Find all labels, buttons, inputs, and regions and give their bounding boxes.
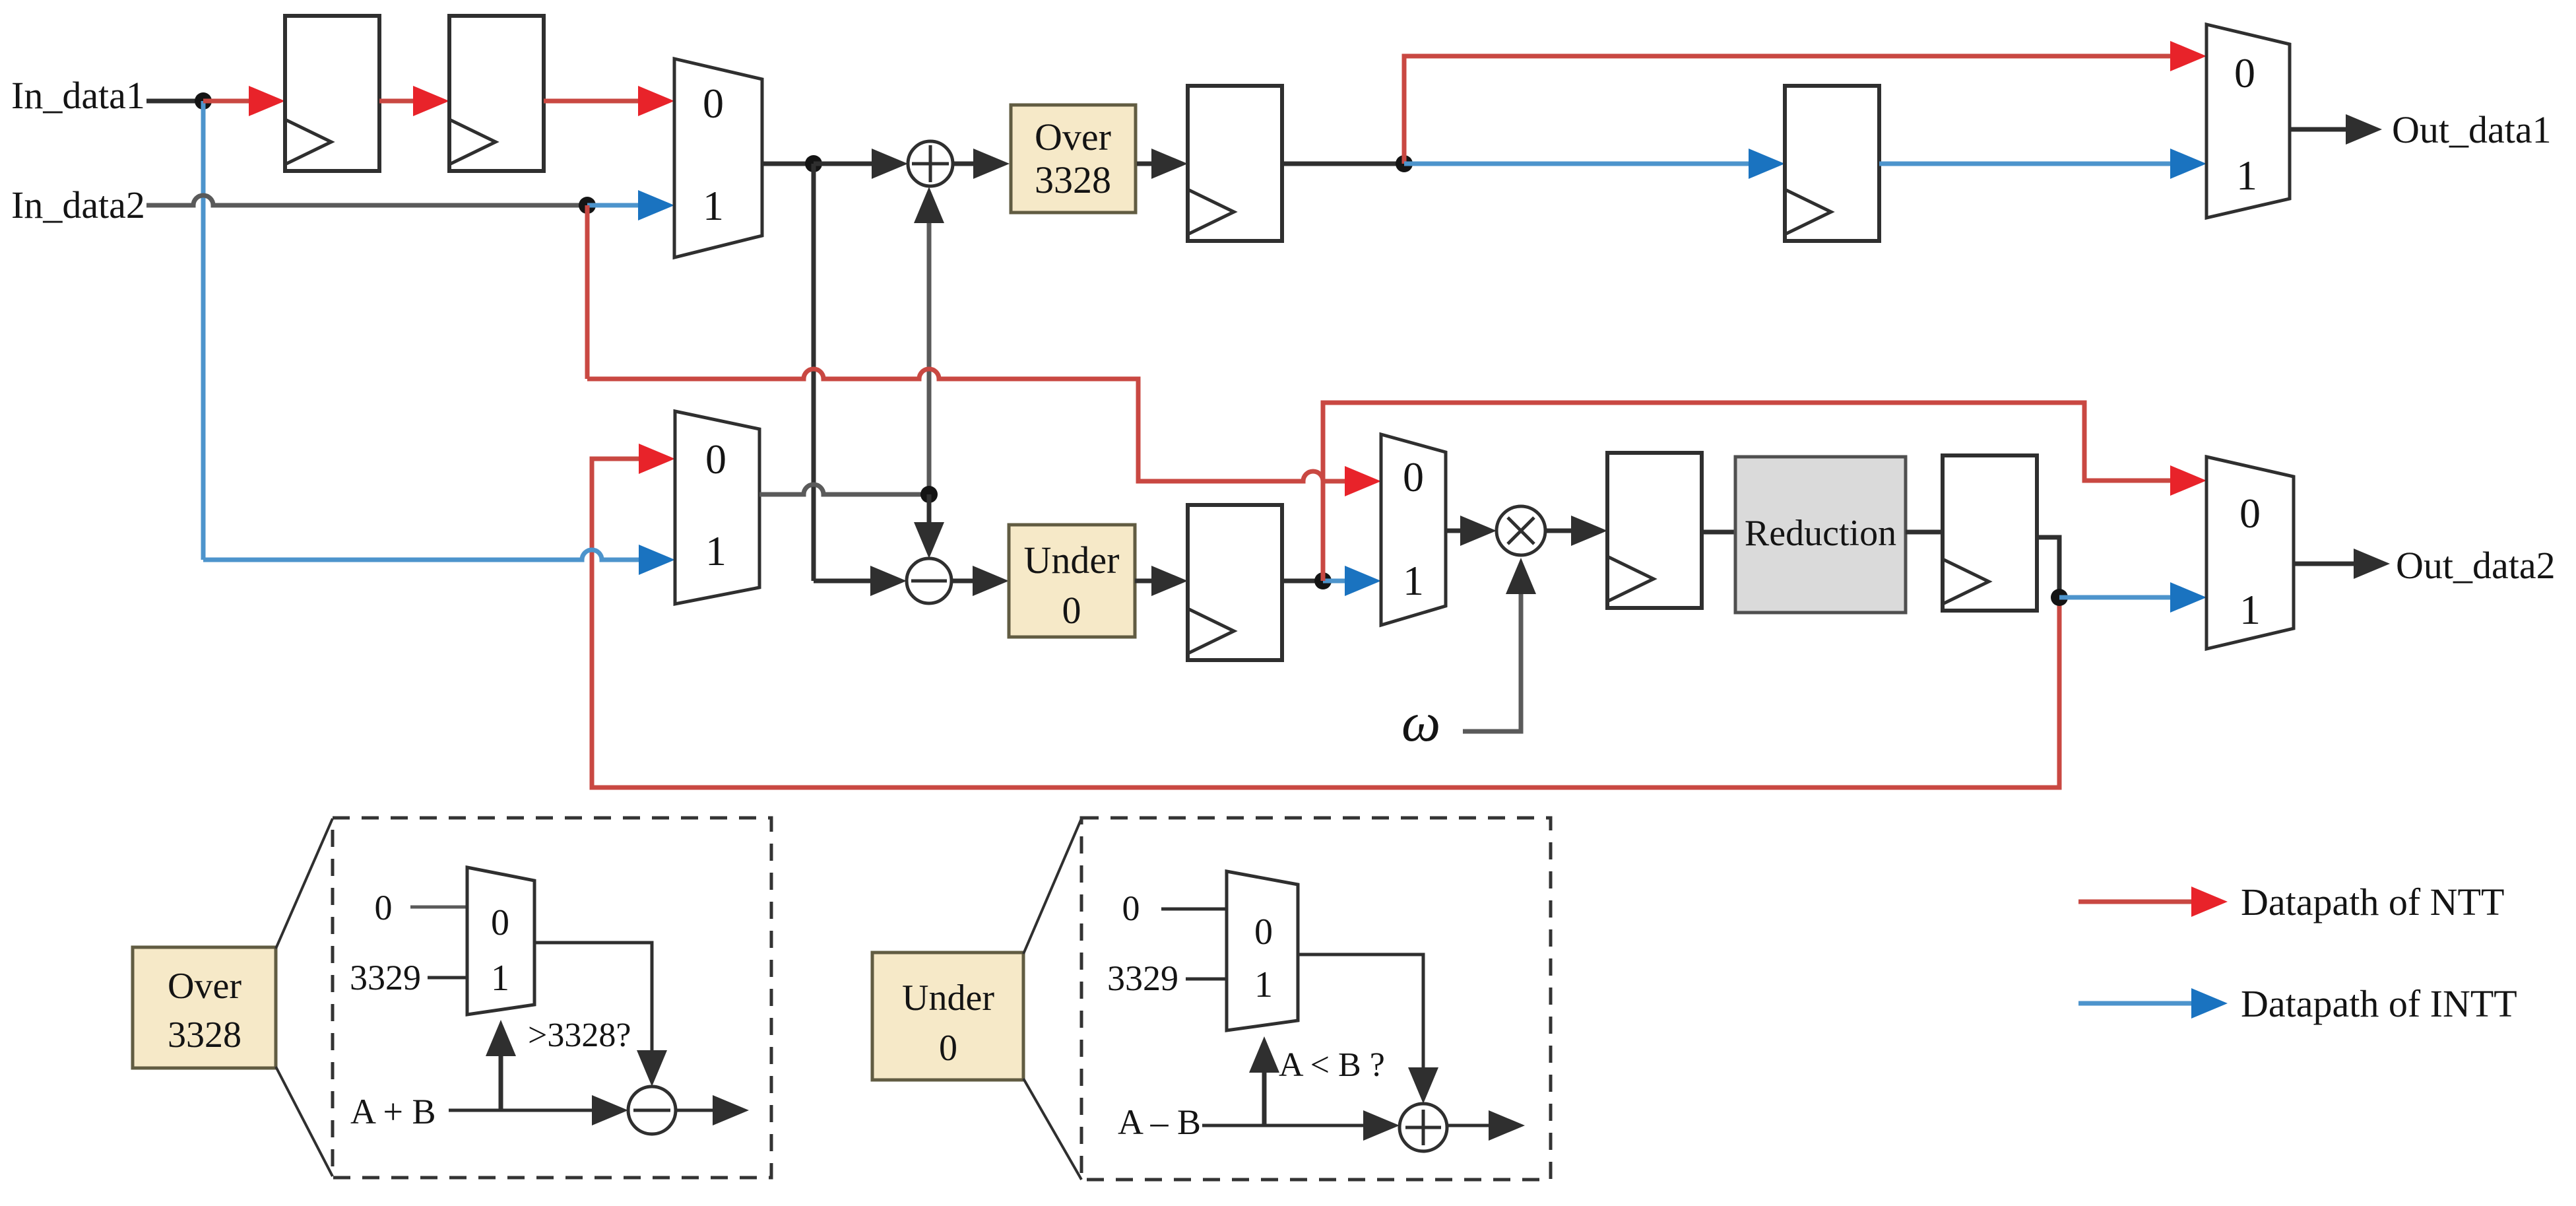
wire adder bottom input (from J5) xyxy=(927,221,932,494)
subtractor SUB2 xyxy=(628,1087,676,1134)
wire callout funnel bottom (Under) xyxy=(1023,1079,1081,1180)
svg-text:A < B ?: A < B ? xyxy=(1279,1046,1385,1084)
adder ADD2 xyxy=(1400,1104,1447,1151)
svg-text:0: 0 xyxy=(939,1028,957,1069)
wire J3 vertical down to subtractor xyxy=(812,164,816,581)
wire select A+B up into M6 (>3328?) xyxy=(499,1055,503,1110)
wire blue INTT to mux M2 input 1 with hop xyxy=(203,550,639,560)
wire adder to Over 3328 xyxy=(953,162,979,166)
wire 3329 to mux M6 xyxy=(428,976,467,980)
wire SUB1 to Under 0 xyxy=(951,579,978,584)
svg-text:Under: Under xyxy=(902,978,994,1019)
mux M7 xyxy=(1227,871,1298,1030)
wire blue R4 to mux M4 input 1 xyxy=(1879,162,2175,166)
svg-text:0: 0 xyxy=(1254,912,1273,953)
svg-text:0: 0 xyxy=(375,888,393,927)
svg-text:3328: 3328 xyxy=(168,1015,241,1055)
svg-text:0: 0 xyxy=(1062,589,1081,632)
svg-text:0: 0 xyxy=(1122,888,1140,928)
node J3 (adder input fanout) xyxy=(805,155,822,172)
wire M7 output down into adder ADD2 xyxy=(1298,955,1423,1069)
wire Over 3328 to R3 xyxy=(1137,162,1157,166)
wire 0 to mux M7 xyxy=(1161,908,1227,911)
mux M3 xyxy=(1381,434,1446,625)
svg-text:Over: Over xyxy=(1035,116,1111,158)
wire red NTT J4 up and right to mux M4 input 0 xyxy=(1404,56,2175,164)
wire red NTT vertical from J2 down xyxy=(585,205,590,379)
legend blue Datapath of INTT xyxy=(2078,1001,2192,1006)
svg-text:0: 0 xyxy=(705,436,726,483)
block Over 3328 detail callout box xyxy=(133,947,276,1068)
block Under 0 xyxy=(1009,525,1135,637)
register R7 xyxy=(1943,455,2037,611)
wire J3 to adder xyxy=(814,162,878,166)
svg-text:A + B: A + B xyxy=(350,1092,436,1131)
wire red R1 to R2 xyxy=(379,99,418,104)
wire R5 to J6 xyxy=(1282,579,1323,584)
mux M4 xyxy=(2206,24,2290,218)
svg-text:1: 1 xyxy=(2236,152,2257,199)
wire M5 output Out_data2 xyxy=(2294,562,2359,566)
wire M6 output down into subtractor SUB2 xyxy=(534,943,652,1052)
mux M1 xyxy=(674,59,762,257)
svg-text:Out_data1: Out_data1 xyxy=(2392,108,2552,151)
multiplier MULT1 xyxy=(1497,506,1545,555)
node J4 (R3 output fanout) xyxy=(1396,155,1413,172)
wire blue J2 to mux M1 input 1 xyxy=(587,203,643,208)
register R5 xyxy=(1188,505,1282,660)
svg-text:1: 1 xyxy=(1403,557,1424,604)
wire red J1 to R1 xyxy=(203,99,254,104)
wire callout funnel bottom (Over) xyxy=(276,1067,333,1176)
svg-text:A – B: A – B xyxy=(1118,1102,1201,1142)
node J7 (R7 output fanout) xyxy=(2051,589,2068,606)
wire multiplier to R6 xyxy=(1545,529,1576,533)
svg-text:Reduction: Reduction xyxy=(1745,513,1896,554)
wire M2 output with hop xyxy=(759,485,929,494)
mux M2 xyxy=(675,411,759,604)
wire ADD2 output xyxy=(1447,1124,1493,1127)
register R6 xyxy=(1607,453,1702,608)
block Over 3328 xyxy=(1011,105,1136,213)
register R3 xyxy=(1188,86,1282,241)
svg-text:0: 0 xyxy=(2234,50,2255,96)
svg-text:Datapath of NTT: Datapath of NTT xyxy=(2241,881,2504,923)
svg-text:>3328?: >3328? xyxy=(528,1017,631,1054)
register R1 xyxy=(285,16,379,171)
node J1 (In_data1 fanout) xyxy=(195,92,212,110)
svg-text:0: 0 xyxy=(703,80,724,127)
svg-text:In_data1: In_data1 xyxy=(11,74,145,117)
svg-text:3328: 3328 xyxy=(1035,158,1111,201)
svg-text:0: 0 xyxy=(2239,490,2261,537)
legend red Datapath of NTT xyxy=(2078,900,2192,904)
wire M1 output xyxy=(762,162,814,166)
svg-text:Over: Over xyxy=(168,966,241,1007)
wire omega input to multiplier xyxy=(1463,591,1521,731)
register R4 xyxy=(1785,86,1879,241)
svg-text:1: 1 xyxy=(703,182,724,229)
wire Under 0 to R5 xyxy=(1135,579,1157,584)
wire M4 output Out_data1 xyxy=(2290,127,2351,132)
mux M5 xyxy=(2206,457,2294,649)
wire In_data2 with hop over blue vertical xyxy=(146,195,587,205)
wire M3 output to multiplier xyxy=(1446,529,1466,533)
wire blue J7 to mux M5 input 1 xyxy=(2059,595,2175,600)
wire R6 to Reduction xyxy=(1702,530,1735,535)
svg-text:1: 1 xyxy=(2239,586,2261,633)
wire blue J6 to mux M3 input 1 xyxy=(1323,579,1350,584)
mux M6 xyxy=(467,867,534,1015)
svg-text:Datapath of INTT: Datapath of INTT xyxy=(2241,982,2517,1025)
wire 3329 to mux M7 xyxy=(1186,978,1227,981)
wire R7 output jog down to J7 xyxy=(2037,537,2059,597)
wire red NTT feedback from bottom into mux M2 input 0 xyxy=(592,459,2059,787)
wire select A-B up into M7 (A<B?) xyxy=(1262,1071,1267,1125)
wire A+B to SUB2 xyxy=(449,1109,594,1112)
wire 0 to mux M6 xyxy=(410,906,467,909)
wire J5 down into subtractor top xyxy=(927,494,932,525)
dashed detail frame (Over) xyxy=(333,818,771,1178)
wire In_data1 to junction xyxy=(146,99,203,104)
block Under 0 detail callout box xyxy=(872,953,1023,1080)
wire SUB2 output xyxy=(676,1109,716,1112)
register R2 xyxy=(449,16,544,171)
dashed detail frame (Under) xyxy=(1081,818,1551,1180)
block Reduction xyxy=(1735,457,1906,613)
adder ADD1 xyxy=(908,141,953,186)
node J5 (sub/add operand fanout) xyxy=(920,486,938,503)
svg-text:0: 0 xyxy=(1403,453,1424,500)
wire A-B to ADD2 xyxy=(1202,1124,1365,1127)
svg-text:3329: 3329 xyxy=(1107,958,1178,998)
wire blue INTT vertical from J1 down xyxy=(201,101,206,560)
node J2 (In_data2 fanout) xyxy=(579,197,596,214)
node J6 (R5 output fanout) xyxy=(1314,572,1332,589)
wire callout funnel top (Over) xyxy=(276,819,333,949)
svg-text:1: 1 xyxy=(705,527,726,574)
svg-text:Under: Under xyxy=(1024,539,1120,582)
wire red NTT J6 up right down to mux M5 input 0 xyxy=(1323,403,2175,581)
wire callout funnel top (Under) xyxy=(1023,819,1081,954)
wire red R2 to mux M1 input 0 xyxy=(544,99,643,104)
svg-text:In_data2: In_data2 xyxy=(11,184,145,226)
subtractor SUB1 xyxy=(907,558,951,603)
wire red NTT In_data2 path: right, down, into mux M3 input 0 xyxy=(587,369,1207,481)
svg-text:1: 1 xyxy=(1254,964,1273,1005)
svg-text:0: 0 xyxy=(491,902,509,943)
svg-text:Out_data2: Out_data2 xyxy=(2396,544,2556,587)
wire Reduction to R7 xyxy=(1906,530,1943,535)
svg-text:1: 1 xyxy=(491,958,509,999)
svg-text:ω: ω xyxy=(1401,692,1440,753)
svg-text:3329: 3329 xyxy=(350,958,421,997)
wire blue J4 to R4 xyxy=(1404,162,1754,166)
wire R3 to J4 xyxy=(1282,162,1404,166)
